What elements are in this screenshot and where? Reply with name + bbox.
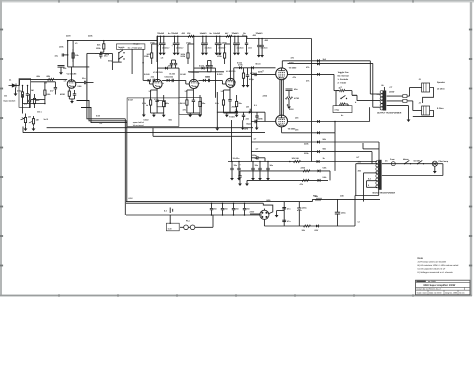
svg-text:V2 ECC83: V2 ECC83 bbox=[153, 71, 163, 74]
svg-text:V5 6550: V5 6550 bbox=[289, 67, 297, 70]
svg-text:1M: 1M bbox=[31, 89, 34, 92]
svg-text:No: Normal: No: Normal bbox=[338, 75, 350, 78]
potentiometer Treble bbox=[232, 106, 238, 114]
V2 plate feed wire bbox=[157, 36, 159, 80]
bias network row upper bbox=[240, 166, 330, 180]
svg-text:Mains: Mains bbox=[403, 158, 410, 161]
wire V5 plate to OT bbox=[282, 61, 380, 94]
svg-text:C) All capacitor values in uF: C) All capacitor values in uF bbox=[418, 267, 446, 270]
svg-text:B) All resistors 1/2W +/-10% u: B) All resistors 1/2W +/-10% unless note… bbox=[418, 264, 459, 267]
output transformer T1 core bbox=[380, 91, 386, 111]
capacitor row V3 V4 interstage pair bbox=[206, 61, 213, 72]
tone feedback box right bbox=[179, 98, 202, 115]
V3 grid coupling wire bbox=[162, 80, 189, 84]
parallel drive line lower bbox=[288, 62, 381, 107]
speaker return routing box bbox=[413, 88, 434, 117]
rail filter cap C17 at x=262.1 bbox=[259, 32, 269, 58]
bias network row lower bbox=[247, 179, 328, 186]
svg-text:1M: 1M bbox=[28, 116, 31, 119]
pilot lamp holder box bbox=[166, 215, 179, 231]
V4 cathode wires bbox=[224, 90, 237, 113]
switch network resistor lower bbox=[340, 103, 346, 105]
cathode bias resistor between tubes bbox=[286, 91, 300, 106]
svg-text:470R: 470R bbox=[294, 97, 299, 100]
vertical bus to heater section bbox=[125, 119, 127, 215]
svg-text:Mixer: Mixer bbox=[256, 63, 261, 66]
capacitor C41 below jack bbox=[24, 94, 31, 108]
sheet right edge border bbox=[470, 2, 472, 296]
cathode tie wires between V5 V6 bbox=[280, 80, 283, 116]
frame zone tick marks right edge bbox=[469, 29, 472, 267]
bias adjust resistor on bottom wire bbox=[302, 225, 311, 232]
svg-text:Bright: Bright bbox=[134, 43, 140, 46]
resistor R2 1M grid leak bbox=[21, 86, 23, 104]
sheet bottom edge border bbox=[0, 295, 472, 297]
screen supply rail wire bbox=[228, 161, 377, 163]
channel legend box bbox=[117, 44, 145, 50]
switch network resistor upper bbox=[339, 86, 346, 91]
switch network box bbox=[333, 106, 352, 113]
svg-text:2: Triode: 2: Triode bbox=[338, 81, 348, 84]
sheet left edge border bbox=[0, 0, 2, 296]
svg-text:V4 ECC83: V4 ECC83 bbox=[226, 70, 236, 73]
long bus wire bottom bbox=[23, 132, 265, 134]
toggle legend text block bbox=[338, 71, 350, 84]
svg-text:100W: 100W bbox=[389, 91, 394, 94]
svg-text:0.022: 0.022 bbox=[237, 62, 243, 65]
interstage wire upper row V3-V4 bbox=[194, 67, 216, 98]
resistor R4 10k dropper bbox=[72, 49, 80, 62]
vertical feed to supply row bbox=[231, 120, 233, 162]
supply filter capacitor at x=260.0 bbox=[258, 161, 262, 181]
svg-text:MKII Super Amplifier 100W: MKII Super Amplifier 100W bbox=[424, 284, 456, 287]
svg-text:On/Off: On/Off bbox=[414, 160, 421, 163]
ground V3 cathode b bbox=[198, 113, 202, 117]
V3 coupling capacitor bbox=[170, 75, 174, 82]
svg-text:32+32u: 32+32u bbox=[233, 157, 241, 160]
svg-text:Toggle: Toggle bbox=[118, 46, 125, 49]
PT primary loop top wire bbox=[382, 163, 443, 165]
legend switch wiring bbox=[95, 49, 144, 80]
svg-text:OUTPUT TRANSFORMER: OUTPUT TRANSFORMER bbox=[377, 112, 402, 115]
svg-text:170V: 170V bbox=[150, 42, 155, 45]
grid wire from jack to V1 bbox=[16, 79, 67, 85]
junction V6 plate to bias bbox=[334, 121, 336, 133]
potentiometer VR1 volume bbox=[21, 114, 32, 127]
rail dropper resistor R8 bbox=[225, 32, 232, 38]
svg-text:Iss 2 9/69: Iss 2 9/69 bbox=[428, 280, 436, 283]
wire V1 cathode bottom bbox=[69, 98, 74, 100]
V1b plate network cluster bbox=[96, 47, 108, 59]
pilot lamp on mains bbox=[432, 161, 437, 166]
V2 cathode second resistor bbox=[163, 95, 165, 113]
V4 plate resistor 100k bbox=[224, 47, 226, 64]
svg-text:180V: 180V bbox=[222, 42, 227, 45]
PT secondary tap 2 bbox=[364, 173, 378, 202]
rail filter cap C11 at x=216.5 bbox=[213, 32, 223, 56]
pilot lamp wires bbox=[180, 215, 213, 227]
svg-text:0.022: 0.022 bbox=[144, 119, 150, 122]
V4 plate feed wire bbox=[230, 36, 232, 79]
wire V6 cathode return bbox=[282, 127, 335, 171]
ground tone row 3 bbox=[255, 121, 259, 130]
V2 coupling capacitor bbox=[151, 75, 155, 82]
svg-text:Speaker: Speaker bbox=[437, 81, 445, 84]
wire volume to bus bbox=[23, 127, 26, 133]
ground VR2 bbox=[32, 127, 36, 131]
OT secondary tap 8 ohm bbox=[387, 99, 413, 102]
pentode V5 6550 upper bbox=[276, 68, 288, 80]
wire V6 grid line bbox=[251, 118, 275, 124]
feedback box inner vertical 1 bbox=[142, 98, 149, 117]
switch cluster near channel jacks bbox=[87, 52, 95, 54]
V1 supply node wire bbox=[67, 40, 157, 42]
heater bypass capacitor 4 20n bbox=[243, 202, 251, 215]
svg-text:Toggle Pos: Toggle Pos bbox=[338, 71, 350, 74]
bias feed wire row 2 bbox=[251, 150, 372, 164]
switch S3 mode bbox=[340, 95, 347, 99]
V1 cathode bypass cap C3 bbox=[73, 90, 76, 99]
V4 cathode bypass capacitor bbox=[228, 88, 231, 114]
label speaker jack 1 bbox=[437, 81, 445, 90]
ground V2 cathode bbox=[152, 113, 156, 117]
bias feed wire row 1 bbox=[251, 141, 379, 161]
ground tone row 1 bbox=[215, 127, 219, 131]
frame zone tick marks bottom edge bbox=[58, 294, 414, 296]
svg-text:Note: Note bbox=[418, 257, 424, 260]
pilot lamp bulb 1 bbox=[184, 225, 189, 230]
svg-text:100u: 100u bbox=[341, 212, 346, 215]
V1 supply verticals bbox=[68, 41, 90, 67]
supply filter capacitor at x=239.0 bbox=[237, 161, 241, 181]
potentiometer VR2 volume 2 bbox=[29, 116, 39, 127]
V1 plate supply vertical wire bbox=[71, 67, 73, 80]
svg-text:Drawn by: D. Reeves Iss.: Drawn by: D. Reeves Iss. 2 bbox=[417, 288, 441, 291]
capacitor C42 second input bbox=[50, 82, 57, 95]
ground OT common bbox=[407, 106, 411, 122]
svg-text:470p: 470p bbox=[17, 90, 22, 93]
ground mains earth bbox=[433, 166, 437, 173]
V3 cathode resistor bbox=[186, 92, 188, 113]
mixer shunt capacitor bbox=[246, 68, 250, 88]
reservoir capacitor chain bbox=[282, 202, 291, 226]
resistor R42 below jack bbox=[33, 94, 40, 108]
feedback box inner rect bbox=[157, 101, 166, 107]
filter cap row on screen rail bbox=[0, 0, 1, 1]
rail filter cap C13 at x=234.8 bbox=[232, 32, 242, 56]
grid stopper arrow V6 bbox=[317, 120, 320, 123]
V4 plate output wire bbox=[234, 68, 276, 86]
rail filter cap C7 at x=174.5 bbox=[171, 32, 181, 56]
svg-text:820R: 820R bbox=[60, 93, 65, 96]
svg-text:10k 5W: 10k 5W bbox=[292, 157, 299, 160]
ground V4 cathode bbox=[225, 113, 229, 117]
OT B+ feed stub bbox=[382, 84, 386, 91]
mixer resistor Rm2 470k bbox=[250, 66, 255, 75]
potentiometer Bass bbox=[246, 106, 251, 114]
PT secondary tap 1 bbox=[356, 164, 377, 196]
V3 cathode wires bbox=[187, 90, 200, 113]
rail filter cap C5 at x=160.5 bbox=[157, 32, 167, 56]
fuse F1 bbox=[390, 158, 396, 166]
ground input sleeve bbox=[14, 88, 18, 97]
wire rail drop to coupling row bbox=[156, 41, 158, 62]
mixer resistor Rm1 470k bbox=[238, 63, 243, 69]
svg-text:6.3V: 6.3V bbox=[129, 197, 134, 200]
rail filter cap C15 at x=246.5 bbox=[243, 32, 253, 56]
heater bypass capacitor 1 20n bbox=[210, 202, 218, 215]
svg-text:1M: 1M bbox=[246, 106, 249, 109]
svg-text:250p: 250p bbox=[168, 65, 173, 68]
capacitor bass slope bbox=[255, 112, 258, 121]
svg-text:No = Treble peak: No = Treble peak bbox=[128, 47, 142, 50]
mains switch S4 bbox=[403, 158, 411, 165]
bias right capacitor bbox=[335, 199, 347, 226]
V3 plate resistor 100k bbox=[187, 47, 189, 64]
capacitor C43 to ground bbox=[58, 66, 65, 75]
svg-text:250p: 250p bbox=[105, 53, 110, 56]
svg-text:A) Preamp valves are ECC83: A) Preamp valves are ECC83 bbox=[418, 261, 447, 264]
rail filter cap C10 at x=206.1 bbox=[203, 32, 213, 56]
ground V4 cathode b bbox=[235, 113, 239, 117]
svg-text:B 240: B 240 bbox=[170, 73, 176, 76]
wire NFB vertical bbox=[250, 133, 252, 162]
svg-text:435V: 435V bbox=[289, 62, 294, 65]
svg-text:B 240: B 240 bbox=[144, 73, 150, 76]
wire second input row bbox=[31, 81, 56, 83]
bias section right wires bbox=[355, 176, 379, 226]
wire V5 screen line bbox=[288, 74, 381, 100]
heater supply bus wires bbox=[126, 202, 312, 215]
svg-text:Dwg No. 1959: Dwg No. 1959 bbox=[445, 292, 457, 295]
screen dropper resistor 10k5W bbox=[289, 157, 300, 163]
svg-text:0.047: 0.047 bbox=[128, 99, 134, 102]
triode V3 ECC83 bbox=[189, 79, 198, 88]
PT primary loop bottom wire bbox=[382, 164, 443, 176]
tone stack feedback box bbox=[127, 98, 179, 127]
mixer shunt resistor to ground bbox=[242, 68, 246, 88]
svg-text:-52V: -52V bbox=[314, 229, 319, 232]
bias row left caps bbox=[238, 171, 249, 186]
speaker jack 2 bbox=[413, 101, 430, 115]
V1 cathode resistor R5 820R bbox=[68, 88, 70, 99]
svg-text:Scale: none: Scale: none bbox=[417, 292, 427, 295]
svg-text:D) Voltages measured w.r.t. ch: D) Voltages measured w.r.t. chassis bbox=[418, 271, 454, 274]
svg-text:Input socket: Input socket bbox=[4, 100, 16, 103]
capacitor treble slope bbox=[242, 112, 250, 120]
cathode bias capacitor between tubes bbox=[286, 88, 299, 91]
bridge AC loop wires bbox=[263, 203, 273, 214]
svg-text:Date: 12-09-69: Date: 12-09-69 bbox=[429, 292, 441, 295]
bridge AC input wire left bbox=[250, 210, 260, 214]
rail filter cap C12 at x=219.8 bbox=[217, 32, 227, 56]
svg-text:0.022: 0.022 bbox=[199, 65, 205, 68]
interstage wire V3 V4 row bbox=[188, 71, 224, 73]
ground tone row 2 bbox=[241, 120, 245, 130]
svg-text:NFB: NFB bbox=[244, 128, 249, 131]
svg-text:0.022: 0.022 bbox=[205, 76, 211, 79]
wire jack lower bus bbox=[23, 103, 46, 105]
V1b plate resistor R6 bbox=[103, 41, 105, 53]
V3 plate feed wire bbox=[193, 36, 195, 80]
V2 cathode wires bbox=[151, 90, 164, 113]
resistor R1 68k grid stopper bbox=[47, 75, 55, 80]
resistor R30 under input wire bbox=[44, 82, 51, 104]
speaker jack 1 bbox=[410, 83, 430, 96]
svg-text:220V: 220V bbox=[66, 35, 71, 38]
switch network wires bbox=[336, 91, 357, 106]
bias diode on bottom wire bbox=[314, 225, 319, 232]
HT secondary link row bbox=[363, 143, 379, 149]
svg-text:0.022: 0.022 bbox=[165, 76, 171, 79]
triode V1 ECC83 bbox=[67, 80, 76, 89]
coupling cap C4 to tone network bbox=[76, 77, 94, 84]
reservoir midpoint ground bbox=[275, 211, 285, 218]
V4 cathode second resistor bbox=[236, 95, 238, 113]
svg-text:MAINS TRANSFORMER: MAINS TRANSFORMER bbox=[373, 192, 396, 195]
frame zone tick marks left edge bbox=[0, 29, 3, 267]
wire rail left drop to V2 plate bbox=[156, 36, 158, 41]
title block revision bar bbox=[416, 280, 435, 283]
rail filter cap C9 at x=202.8 bbox=[200, 32, 210, 56]
rail dropper resistor R7 bbox=[187, 32, 194, 38]
PT secondary tap 4 bbox=[367, 181, 378, 188]
heater bypass capacitor 3 20n bbox=[232, 202, 240, 215]
V4 cathode resistor bbox=[222, 92, 224, 113]
V2 cathode resistor bbox=[150, 92, 152, 113]
interstage wire upper row V2-V3 bbox=[158, 67, 180, 98]
svg-text:8 Ohm: 8 Ohm bbox=[437, 107, 444, 110]
svg-text:1: Pentode: 1: Pentode bbox=[338, 78, 349, 81]
arrow on screen rail bbox=[317, 160, 320, 163]
ground V2 cathode b bbox=[162, 113, 166, 117]
ground cathode network bbox=[287, 105, 291, 109]
title block bottom row text bbox=[417, 292, 465, 295]
grid stopper arrow on screen line bbox=[317, 73, 320, 76]
svg-text:Sh 1/1: Sh 1/1 bbox=[459, 292, 464, 295]
misc component value labels bbox=[4, 32, 422, 224]
wire mixer to grids vertical bbox=[250, 68, 252, 133]
bridge DC output wires bbox=[264, 209, 355, 227]
B+ supply rail bbox=[157, 36, 312, 38]
switch S2 normal bbox=[118, 56, 125, 60]
grid stopper arrow V5 screen bbox=[317, 58, 327, 62]
heater 6.3V source symbol bbox=[164, 208, 173, 214]
V4 grid coupling arrow bbox=[203, 79, 206, 82]
heater bypass capacitor 2 20n bbox=[221, 202, 229, 215]
rail filter cap C14 at x=238.1 bbox=[235, 32, 245, 56]
V2 plate resistor 100k bbox=[151, 47, 153, 64]
title block outline bbox=[416, 280, 471, 295]
V2 grid coupling wire bbox=[143, 80, 153, 84]
svg-text:500p: 500p bbox=[108, 60, 113, 63]
V4 grid coupling wire bbox=[198, 80, 225, 84]
V3 cathode bypass capacitor bbox=[192, 89, 195, 113]
V2 cathode bypass capacitor bbox=[155, 89, 158, 113]
bridge rectifier BR1 bbox=[260, 210, 269, 219]
long bus wire lower bbox=[47, 127, 253, 129]
svg-text:1M: 1M bbox=[44, 82, 47, 85]
bias supply top wire bbox=[312, 195, 380, 202]
svg-text:4.16: 4.16 bbox=[377, 93, 380, 96]
V3 cathode second resistor bbox=[199, 95, 201, 113]
OT secondary common bbox=[387, 105, 409, 107]
svg-text:170V: 170V bbox=[186, 42, 191, 45]
ground V3 cathode bbox=[188, 113, 192, 117]
rail filter cap C16 at x=258.8 bbox=[256, 32, 266, 58]
V3 grid coupling arrow bbox=[167, 79, 170, 82]
wire PI feed vertical bbox=[311, 39, 313, 162]
svg-text:B 240: B 240 bbox=[180, 73, 186, 76]
ground V1 cathode bbox=[70, 99, 74, 103]
supply filter capacitor at x=268.0 bbox=[266, 161, 274, 181]
triode V2 ECC83 bbox=[153, 79, 162, 88]
tone stack label bbox=[133, 121, 145, 127]
svg-text:100p: 100p bbox=[252, 154, 257, 157]
svg-text:Treble: Treble bbox=[229, 116, 236, 119]
capacitor C1 bright bbox=[26, 86, 29, 104]
supply filter capacitor at x=253.0 bbox=[251, 161, 259, 181]
triode V4 ECC83 bbox=[226, 78, 235, 87]
smoothing capacitor C30 bbox=[297, 202, 307, 226]
svg-text:1M: 1M bbox=[36, 119, 39, 122]
tone control row wire bbox=[217, 92, 265, 128]
svg-text:100u: 100u bbox=[302, 207, 307, 210]
wire V6 plate line bbox=[288, 107, 370, 121]
wire bundle V1 outputs to switching bbox=[77, 53, 128, 122]
svg-text:B 240: B 240 bbox=[217, 73, 223, 76]
svg-text:435V: 435V bbox=[289, 108, 294, 111]
wire volume tap bbox=[22, 94, 24, 114]
capacitor C2 supply filter bbox=[55, 54, 69, 58]
wire channel B bus bbox=[153, 128, 251, 137]
pentode V6 6550 lower bbox=[276, 115, 288, 127]
ground VR1 bbox=[24, 127, 28, 131]
rail filter cap C8 at x=177.8 bbox=[175, 32, 185, 56]
svg-text:16 Ohm: 16 Ohm bbox=[437, 87, 445, 90]
OT secondary tap 16 ohm bbox=[387, 95, 410, 98]
pilot lamp bulb 2 bbox=[190, 225, 195, 230]
wire jack bottom to cathode area bbox=[31, 99, 45, 101]
NFB capacitor bbox=[251, 154, 265, 162]
capacitor pair interstage V2-V3 bbox=[170, 60, 177, 68]
svg-text:Vol: Vol bbox=[4, 95, 7, 98]
input jack J1 bbox=[9, 84, 17, 88]
node grid junction bbox=[22, 85, 24, 87]
top band ticks bbox=[58, 0, 414, 3]
arrow on cathode return bbox=[317, 131, 320, 134]
svg-text:V1 not used: V1 not used bbox=[133, 124, 145, 127]
svg-text:Pilot lamp: Pilot lamp bbox=[439, 160, 449, 163]
standby switch S5 bbox=[417, 160, 424, 164]
PT secondary tap 3 bbox=[367, 180, 378, 182]
rail filter cap C6 at x=163.8 bbox=[161, 32, 171, 56]
supply filter capacitor at x=232.0 bbox=[230, 161, 238, 181]
wire V5 grid line bbox=[251, 70, 275, 76]
V4 coupling capacitor bbox=[206, 75, 210, 82]
wire tone row to V6 grid bbox=[264, 112, 266, 121]
svg-text:spare half of: spare half of bbox=[133, 121, 145, 124]
mains transformer T2 core bbox=[376, 160, 382, 190]
input jack enclosure box bbox=[19, 79, 31, 108]
svg-text:230V: 230V bbox=[250, 210, 255, 213]
switch S1 bright bbox=[118, 50, 125, 54]
V2 grid coupling arrow bbox=[148, 79, 151, 82]
